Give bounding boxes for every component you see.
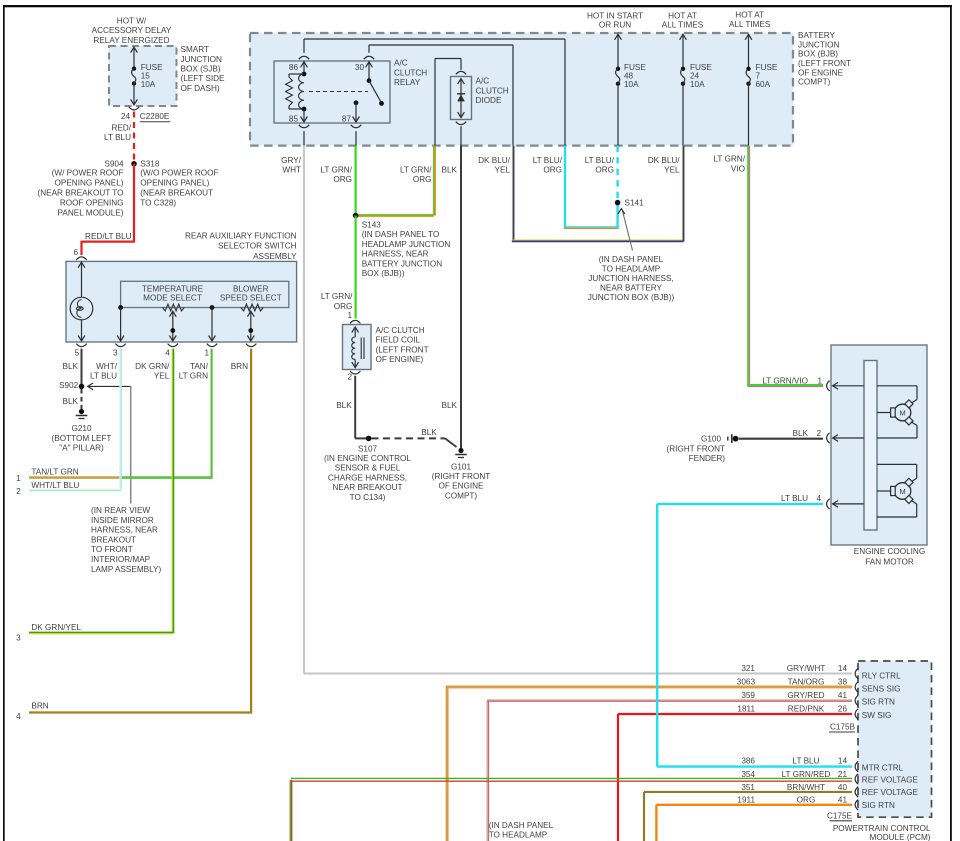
svg-text:HARNESS, NEAR: HARNESS, NEAR (91, 526, 158, 535)
wire relay pin30 to DK BLU/YEL drop (368, 45, 370, 53)
svg-text:2: 2 (347, 372, 352, 381)
svg-text:WHT/: WHT/ (96, 362, 118, 371)
diode symbol (458, 79, 465, 85)
svg-text:CLUTCH: CLUTCH (476, 86, 509, 95)
svg-text:RELAY: RELAY (394, 78, 421, 87)
splice S107 (366, 436, 372, 442)
wire BRN/WHT from bottom to PCM REF VOLTAGE (643, 792, 645, 841)
svg-text:MODE SELECT: MODE SELECT (143, 294, 202, 303)
svg-text:NEAR BATTERY: NEAR BATTERY (600, 284, 663, 293)
svg-text:BREAKOUT: BREAKOUT (91, 535, 136, 544)
svg-text:(NEAR BREAKOUT TO: (NEAR BREAKOUT TO (38, 189, 124, 198)
svg-text:ASSEMBLY: ASSEMBLY (253, 252, 297, 261)
wire 3 DK GRN/YEL pin4 to left edge (171, 349, 173, 633)
svg-text:3: 3 (113, 348, 118, 357)
svg-text:6: 6 (73, 248, 78, 257)
ground G101 (458, 448, 463, 453)
svg-text:2: 2 (816, 429, 821, 438)
svg-text:JUNCTION: JUNCTION (798, 40, 839, 49)
svg-text:TO HEADLAMP: TO HEADLAMP (489, 831, 548, 840)
wire DK BLU/YEL relay 30 to fuse 24 U-route (511, 146, 513, 240)
fan motor internal bus bar (864, 361, 877, 531)
svg-text:YEL: YEL (664, 166, 680, 175)
svg-text:ORG: ORG (413, 175, 432, 184)
resistor blower speed select (241, 304, 263, 311)
svg-text:OF ENGINE: OF ENGINE (798, 68, 844, 77)
svg-text:S141: S141 (625, 198, 645, 207)
svg-text:(LEFT FRONT: (LEFT FRONT (798, 59, 851, 68)
splice S318 (131, 161, 137, 167)
svg-text:359: 359 (741, 691, 755, 700)
relay pin 85 (303, 109, 305, 121)
svg-text:PANEL MODULE): PANEL MODULE) (58, 209, 124, 218)
svg-text:ENGINE COOLING: ENGINE COOLING (854, 547, 925, 556)
svg-text:TO C328): TO C328) (140, 199, 176, 208)
svg-text:30: 30 (355, 63, 365, 72)
wire GRY/WHT relay 85 to PCM RLY CTRL (303, 146, 305, 674)
svg-text:YEL: YEL (495, 166, 511, 175)
wire RED/PNK from bottom to PCM SW SIG (617, 714, 619, 841)
wire BLK diode to G101 (460, 126, 462, 145)
fuse F15 output wire (133, 84, 135, 105)
svg-text:MODULE (PCM): MODULE (PCM) (870, 833, 931, 841)
svg-text:BOX (SJB): BOX (SJB) (181, 64, 221, 73)
svg-text:1811: 1811 (737, 704, 755, 713)
fuse F15 10A (132, 66, 136, 70)
node pin3 junction on bus (118, 305, 123, 310)
svg-text:10A: 10A (141, 80, 156, 89)
svg-text:VIO: VIO (731, 164, 745, 173)
wire RED/LT BLU dashed from C2280E to S318 (133, 112, 135, 164)
svg-text:C175E: C175E (827, 811, 853, 820)
svg-text:LT BLU: LT BLU (104, 133, 131, 142)
svg-text:OPENING PANEL): OPENING PANEL) (54, 179, 123, 188)
svg-text:BRN: BRN (31, 701, 48, 710)
wire BLK dashed S107 to G101 (372, 437, 446, 439)
fuse F48 10A (617, 35, 619, 69)
svg-text:SPEED SELECT: SPEED SELECT (220, 294, 282, 303)
svg-text:DK BLU/: DK BLU/ (648, 156, 681, 165)
wire LT GRN/VIO fuse 7 to fan pin 1 (747, 146, 749, 386)
relay switch common node (367, 78, 372, 83)
svg-text:LT GRN/RED: LT GRN/RED (782, 770, 831, 779)
svg-text:WHT: WHT (282, 166, 301, 175)
svg-text:351: 351 (741, 783, 755, 792)
svg-text:BRN: BRN (231, 362, 248, 371)
wire BLK G100 to fan pin 2 (739, 438, 823, 440)
svg-text:BATTERY JUNCTION: BATTERY JUNCTION (362, 259, 443, 268)
A/C clutch diode connector bottom (456, 122, 466, 125)
svg-text:1: 1 (16, 474, 21, 483)
svg-text:COMPT): COMPT) (445, 491, 478, 500)
wire TAN/ORG from bottom to PCM SENS SIG (446, 687, 448, 841)
svg-text:(RIGHT FRONT: (RIGHT FRONT (666, 444, 725, 453)
svg-text:FAN MOTOR: FAN MOTOR (865, 557, 914, 566)
svg-text:REF VOLTAGE: REF VOLTAGE (862, 776, 919, 785)
svg-text:ALL TIMES: ALL TIMES (662, 21, 704, 30)
svg-text:SMART: SMART (181, 45, 210, 54)
svg-text:41: 41 (838, 796, 848, 805)
svg-text:HOT IN START: HOT IN START (587, 11, 643, 20)
svg-text:RELAY ENERGIZED: RELAY ENERGIZED (93, 36, 169, 45)
svg-text:ALL TIMES: ALL TIMES (729, 20, 771, 29)
svg-text:HOT W/: HOT W/ (117, 16, 147, 25)
svg-text:(LEFT FRONT: (LEFT FRONT (376, 345, 429, 354)
svg-text:ORG: ORG (333, 175, 352, 184)
svg-text:HOT AT: HOT AT (735, 10, 764, 19)
fan motor 1 circuit bottom (911, 422, 917, 426)
svg-text:DK BLU/: DK BLU/ (478, 156, 511, 165)
svg-text:BLK: BLK (336, 401, 352, 410)
svg-text:DK GRN/: DK GRN/ (135, 362, 170, 371)
wire relay pin85 GRY/WHT inside BJB (303, 131, 305, 145)
node pin1 junction on bus (210, 305, 215, 310)
svg-text:85: 85 (289, 114, 299, 123)
field coil symbol (352, 327, 359, 333)
callout harness note to S902 (89, 385, 131, 387)
svg-text:RLY CTRL: RLY CTRL (862, 671, 901, 680)
svg-text:M: M (899, 487, 905, 496)
svg-text:LT BLU: LT BLU (781, 494, 808, 503)
relay switch blade (369, 81, 382, 103)
svg-text:86: 86 (289, 63, 299, 72)
wire LT BLU/ORG dashed fuse 48 to S141 (616, 146, 618, 200)
relay pin 86 connector (299, 56, 309, 59)
svg-text:RED/: RED/ (111, 123, 131, 132)
svg-text:TO HEADLAMP: TO HEADLAMP (602, 264, 661, 273)
wire LT BLU/ORG relay 86 to S141 U-route (564, 146, 566, 229)
svg-text:LT GRN/: LT GRN/ (713, 155, 745, 164)
wire 4 BRN to left edge (250, 349, 252, 713)
svg-text:SENSOR & FUEL: SENSOR & FUEL (335, 464, 401, 473)
wire GRY/RED from bottom to PCM SIG RTN (486, 701, 488, 841)
svg-text:BLK: BLK (63, 362, 79, 371)
wire diode feed inside BJB (434, 59, 436, 146)
resistor temperature mode select (163, 304, 185, 311)
svg-text:INTERIOR/MAP: INTERIOR/MAP (91, 555, 151, 564)
svg-text:60A: 60A (756, 80, 771, 89)
svg-text:REF VOLTAGE: REF VOLTAGE (862, 788, 919, 797)
svg-text:G210: G210 (71, 424, 91, 433)
svg-text:SENS SIG: SENS SIG (862, 685, 901, 694)
svg-text:(IN DASH PANEL: (IN DASH PANEL (599, 255, 664, 264)
svg-text:4: 4 (816, 494, 821, 503)
svg-text:41: 41 (838, 691, 848, 700)
svg-text:1: 1 (204, 348, 209, 357)
svg-text:C175B: C175B (830, 723, 856, 732)
fan motor M1 (894, 404, 911, 421)
connector C2280E pin 24 (129, 107, 139, 110)
fuse F24 10A (682, 35, 684, 69)
svg-text:RED/LT BLU: RED/LT BLU (85, 232, 132, 241)
svg-text:(IN ENGINE CONTROL: (IN ENGINE CONTROL (324, 454, 411, 463)
wire 1 TAN/LT GRN pin1 to left edge (211, 349, 213, 479)
svg-text:HEADLAMP JUNCTION: HEADLAMP JUNCTION (362, 240, 451, 249)
svg-text:S318: S318 (140, 159, 160, 168)
svg-text:INSIDE MIRROR: INSIDE MIRROR (91, 516, 154, 525)
rear auxiliary function selector switch assembly box (66, 261, 297, 342)
svg-text:1: 1 (347, 311, 352, 320)
field coil pin 2 connector (350, 371, 360, 374)
svg-text:FIELD COIL: FIELD COIL (376, 336, 421, 345)
wire LT GRN/ORG diode branch (433, 146, 435, 216)
svg-text:GRY/RED: GRY/RED (787, 691, 824, 700)
svg-text:LT GRN/: LT GRN/ (320, 166, 352, 175)
wire lamp to pin 5 (81, 320, 83, 341)
svg-text:"A" PILLAR): "A" PILLAR) (59, 443, 104, 452)
svg-text:OF ENGINE: OF ENGINE (438, 482, 484, 491)
battery junction box BJB (250, 33, 793, 146)
svg-text:TEMPERATURE: TEMPERATURE (142, 284, 204, 293)
wire RED/LT BLU from S318 to selector pin 6 (133, 164, 135, 242)
svg-text:M: M (899, 408, 905, 417)
wire LT GRN/RED from bottom to PCM REF VOLTAGE (289, 780, 291, 841)
svg-text:G100: G100 (701, 434, 721, 443)
svg-text:A/C: A/C (394, 59, 408, 68)
wire LT GRN/ORG S143 to field coil (355, 216, 357, 319)
splice S141 (615, 200, 621, 206)
svg-text:HOT AT: HOT AT (668, 11, 697, 20)
fuse F15 feed wire (133, 48, 135, 69)
svg-text:POWERTRAIN CONTROL: POWERTRAIN CONTROL (833, 824, 931, 833)
svg-text:S902: S902 (59, 381, 79, 390)
wire relay pin86 to LT BLU/ORG drop (303, 39, 305, 53)
svg-text:SIG RTN: SIG RTN (862, 801, 895, 810)
svg-text:1: 1 (817, 376, 822, 385)
svg-text:CLUTCH: CLUTCH (394, 68, 427, 77)
splice S143 (356, 214, 434, 216)
A/C clutch diode box (451, 77, 472, 120)
svg-text:A/C: A/C (476, 76, 490, 85)
svg-text:1911: 1911 (737, 796, 755, 805)
fan motor 2 brush wire (877, 490, 891, 492)
wire 2 WHT/LT BLU pin3 to left edge (119, 349, 121, 490)
svg-text:3063: 3063 (737, 677, 756, 686)
wire BLK dashed S902 to G210 (81, 389, 83, 409)
wire pin 3 to bus (120, 308, 122, 341)
svg-text:TAN/ORG: TAN/ORG (788, 677, 825, 686)
svg-text:BLK: BLK (421, 428, 437, 437)
svg-text:G101: G101 (451, 462, 471, 471)
svg-text:354: 354 (741, 770, 755, 779)
fan motor 2 circuit bottom (911, 500, 917, 504)
smart junction box SJB (109, 46, 177, 106)
svg-text:(LEFT SIDE: (LEFT SIDE (181, 74, 226, 83)
svg-text:JUNCTION: JUNCTION (181, 55, 222, 64)
svg-text:BOX (BJB)): BOX (BJB)) (362, 269, 405, 278)
svg-text:DK GRN/YEL: DK GRN/YEL (31, 623, 81, 632)
svg-text:BLK: BLK (442, 165, 458, 174)
A/C clutch field coil box (343, 325, 372, 370)
svg-text:14: 14 (838, 664, 848, 673)
svg-text:LT BLU: LT BLU (793, 756, 820, 765)
svg-text:BOX (BJB): BOX (BJB) (798, 50, 838, 59)
svg-text:BLK: BLK (63, 397, 79, 406)
svg-text:REAR AUXILIARY FUNCTION: REAR AUXILIARY FUNCTION (185, 231, 297, 240)
svg-text:WHT/LT BLU: WHT/LT BLU (31, 481, 79, 490)
svg-text:386: 386 (741, 756, 755, 765)
svg-text:S143: S143 (362, 221, 382, 230)
svg-text:OF DASH): OF DASH) (181, 84, 220, 93)
svg-text:COMPT): COMPT) (798, 78, 831, 87)
A/C clutch relay box (274, 61, 390, 123)
svg-text:C2280E: C2280E (140, 112, 170, 121)
svg-text:24: 24 (121, 112, 131, 121)
relay resistor (289, 73, 304, 75)
svg-text:(NEAR BREAKOUT: (NEAR BREAKOUT (140, 189, 213, 198)
svg-text:ORG: ORG (543, 166, 562, 175)
svg-text:JUNCTION BOX (BJB)): JUNCTION BOX (BJB)) (588, 293, 675, 302)
svg-text:JUNCTION HARNESS,: JUNCTION HARNESS, (588, 274, 674, 283)
illumination lamp (70, 297, 93, 320)
svg-text:OPENING PANEL): OPENING PANEL) (140, 179, 209, 188)
relay pin 87 (354, 100, 359, 105)
svg-text:TO C134): TO C134) (350, 493, 386, 502)
svg-text:ORG: ORG (797, 796, 816, 805)
svg-text:40: 40 (838, 783, 848, 792)
connector pins below selector (76, 344, 86, 347)
ground G210 (79, 409, 84, 414)
wire LT GRN/ORG relay 87 to S143 (355, 146, 357, 216)
svg-text:TO FRONT: TO FRONT (91, 545, 133, 554)
svg-text:OF ENGINE): OF ENGINE) (376, 355, 424, 364)
fan motor 1 circuit top (877, 385, 917, 387)
svg-text:TAN/: TAN/ (190, 362, 209, 371)
svg-text:21: 21 (838, 770, 848, 779)
svg-text:4: 4 (165, 348, 170, 357)
svg-text:LT BLU/: LT BLU/ (585, 156, 615, 165)
svg-text:(BOTTOM LEFT: (BOTTOM LEFT (52, 434, 112, 443)
svg-text:BLK: BLK (793, 429, 809, 438)
svg-text:LT GRN/VIO: LT GRN/VIO (762, 376, 808, 385)
wire LT BLU fan pin 4 to PCM MTR CTRL (657, 503, 823, 505)
svg-text:NEAR BREAKOUT: NEAR BREAKOUT (332, 483, 402, 492)
svg-text:4: 4 (16, 712, 21, 721)
svg-text:(IN DASH PANEL TO: (IN DASH PANEL TO (362, 230, 440, 239)
relay coil junction top (302, 72, 307, 77)
svg-text:LT BLU: LT BLU (90, 371, 117, 380)
svg-text:26: 26 (838, 704, 848, 713)
svg-text:LT BLU/: LT BLU/ (533, 156, 563, 165)
fuse F7 60A (748, 35, 750, 69)
relay coil (299, 74, 304, 109)
callout note to S141 (623, 211, 633, 251)
svg-text:ORG: ORG (334, 302, 353, 311)
fan motor 1 brush wire (877, 412, 891, 414)
svg-text:OR RUN: OR RUN (599, 21, 631, 30)
svg-text:(W/ POWER ROOF: (W/ POWER ROOF (52, 168, 124, 177)
svg-text:ORG: ORG (595, 166, 614, 175)
svg-text:BRN/WHT: BRN/WHT (787, 783, 825, 792)
A/C clutch diode connector top (456, 71, 466, 74)
mode/speed select inner box (121, 281, 289, 307)
svg-text:YEL: YEL (154, 371, 170, 380)
svg-text:HARNESS, NEAR: HARNESS, NEAR (362, 250, 429, 259)
svg-text:SW SIG: SW SIG (862, 711, 892, 720)
wire BLK field coil to S107 (354, 376, 356, 439)
svg-text:TAN/LT GRN: TAN/LT GRN (31, 467, 78, 476)
svg-text:LT GRN: LT GRN (179, 371, 208, 380)
svg-text:BATTERY: BATTERY (798, 31, 836, 40)
svg-text:BLK: BLK (442, 401, 458, 410)
splice S902 (79, 384, 85, 390)
engine cooling fan motor box (831, 345, 927, 545)
ground G100 (727, 437, 729, 441)
svg-text:SELECTOR SWITCH: SELECTOR SWITCH (218, 242, 297, 251)
svg-text:14: 14 (838, 756, 848, 765)
wire BLK pin5 to S902 (81, 349, 83, 387)
svg-text:A/C CLUTCH: A/C CLUTCH (376, 326, 425, 335)
svg-text:(W/O POWER ROOF: (W/O POWER ROOF (140, 168, 218, 177)
svg-text:DIODE: DIODE (476, 96, 502, 105)
svg-text:GRY/WHT: GRY/WHT (787, 664, 826, 673)
relay pin 30 connector (364, 56, 374, 59)
svg-text:38: 38 (838, 677, 848, 686)
svg-text:10A: 10A (690, 80, 705, 89)
wire pin 1 to bus (211, 308, 213, 341)
svg-text:BLOWER: BLOWER (233, 284, 269, 293)
fan motor M2 (894, 483, 911, 500)
svg-text:ACCESSORY DELAY: ACCESSORY DELAY (92, 26, 172, 35)
svg-text:S107: S107 (358, 444, 378, 453)
svg-text:MTR CTRL: MTR CTRL (862, 763, 904, 772)
svg-text:10A: 10A (624, 80, 639, 89)
wire ORG from bottom to PCM SIG RTN (655, 805, 657, 841)
powertrain control module PCM box (858, 661, 932, 817)
wiper temperature select pin 4 (169, 311, 176, 317)
relay coil junction bottom (302, 107, 307, 112)
svg-text:87: 87 (342, 114, 352, 123)
svg-text:5: 5 (74, 348, 79, 357)
svg-text:ROOF OPENING: ROOF OPENING (60, 199, 124, 208)
svg-text:2: 2 (16, 487, 21, 496)
svg-text:3: 3 (16, 633, 21, 642)
svg-text:GRY/: GRY/ (281, 156, 302, 165)
svg-text:(RIGHT FRONT: (RIGHT FRONT (432, 472, 491, 481)
wiper blower select (247, 311, 254, 317)
svg-text:(IN REAR VIEW: (IN REAR VIEW (91, 506, 150, 515)
svg-text:(IN DASH PANEL: (IN DASH PANEL (489, 821, 554, 830)
svg-text:LAMP ASSEMBLY): LAMP ASSEMBLY) (91, 565, 162, 574)
svg-text:LT GRN/: LT GRN/ (321, 292, 353, 301)
svg-text:321: 321 (741, 664, 755, 673)
svg-text:CHARGE HARNESS,: CHARGE HARNESS, (328, 473, 407, 482)
fan motor 2 circuit top (877, 463, 917, 465)
svg-text:RED/PNK: RED/PNK (788, 704, 825, 713)
svg-text:S904: S904 (104, 159, 124, 168)
svg-text:LT GRN/: LT GRN/ (400, 166, 432, 175)
wire relay pin87 LT GRN/ORG inside BJB (355, 131, 357, 145)
svg-text:SIG RTN: SIG RTN (862, 698, 895, 707)
relay mechanical link dashed (309, 91, 368, 93)
svg-text:FENDER): FENDER) (689, 454, 726, 463)
